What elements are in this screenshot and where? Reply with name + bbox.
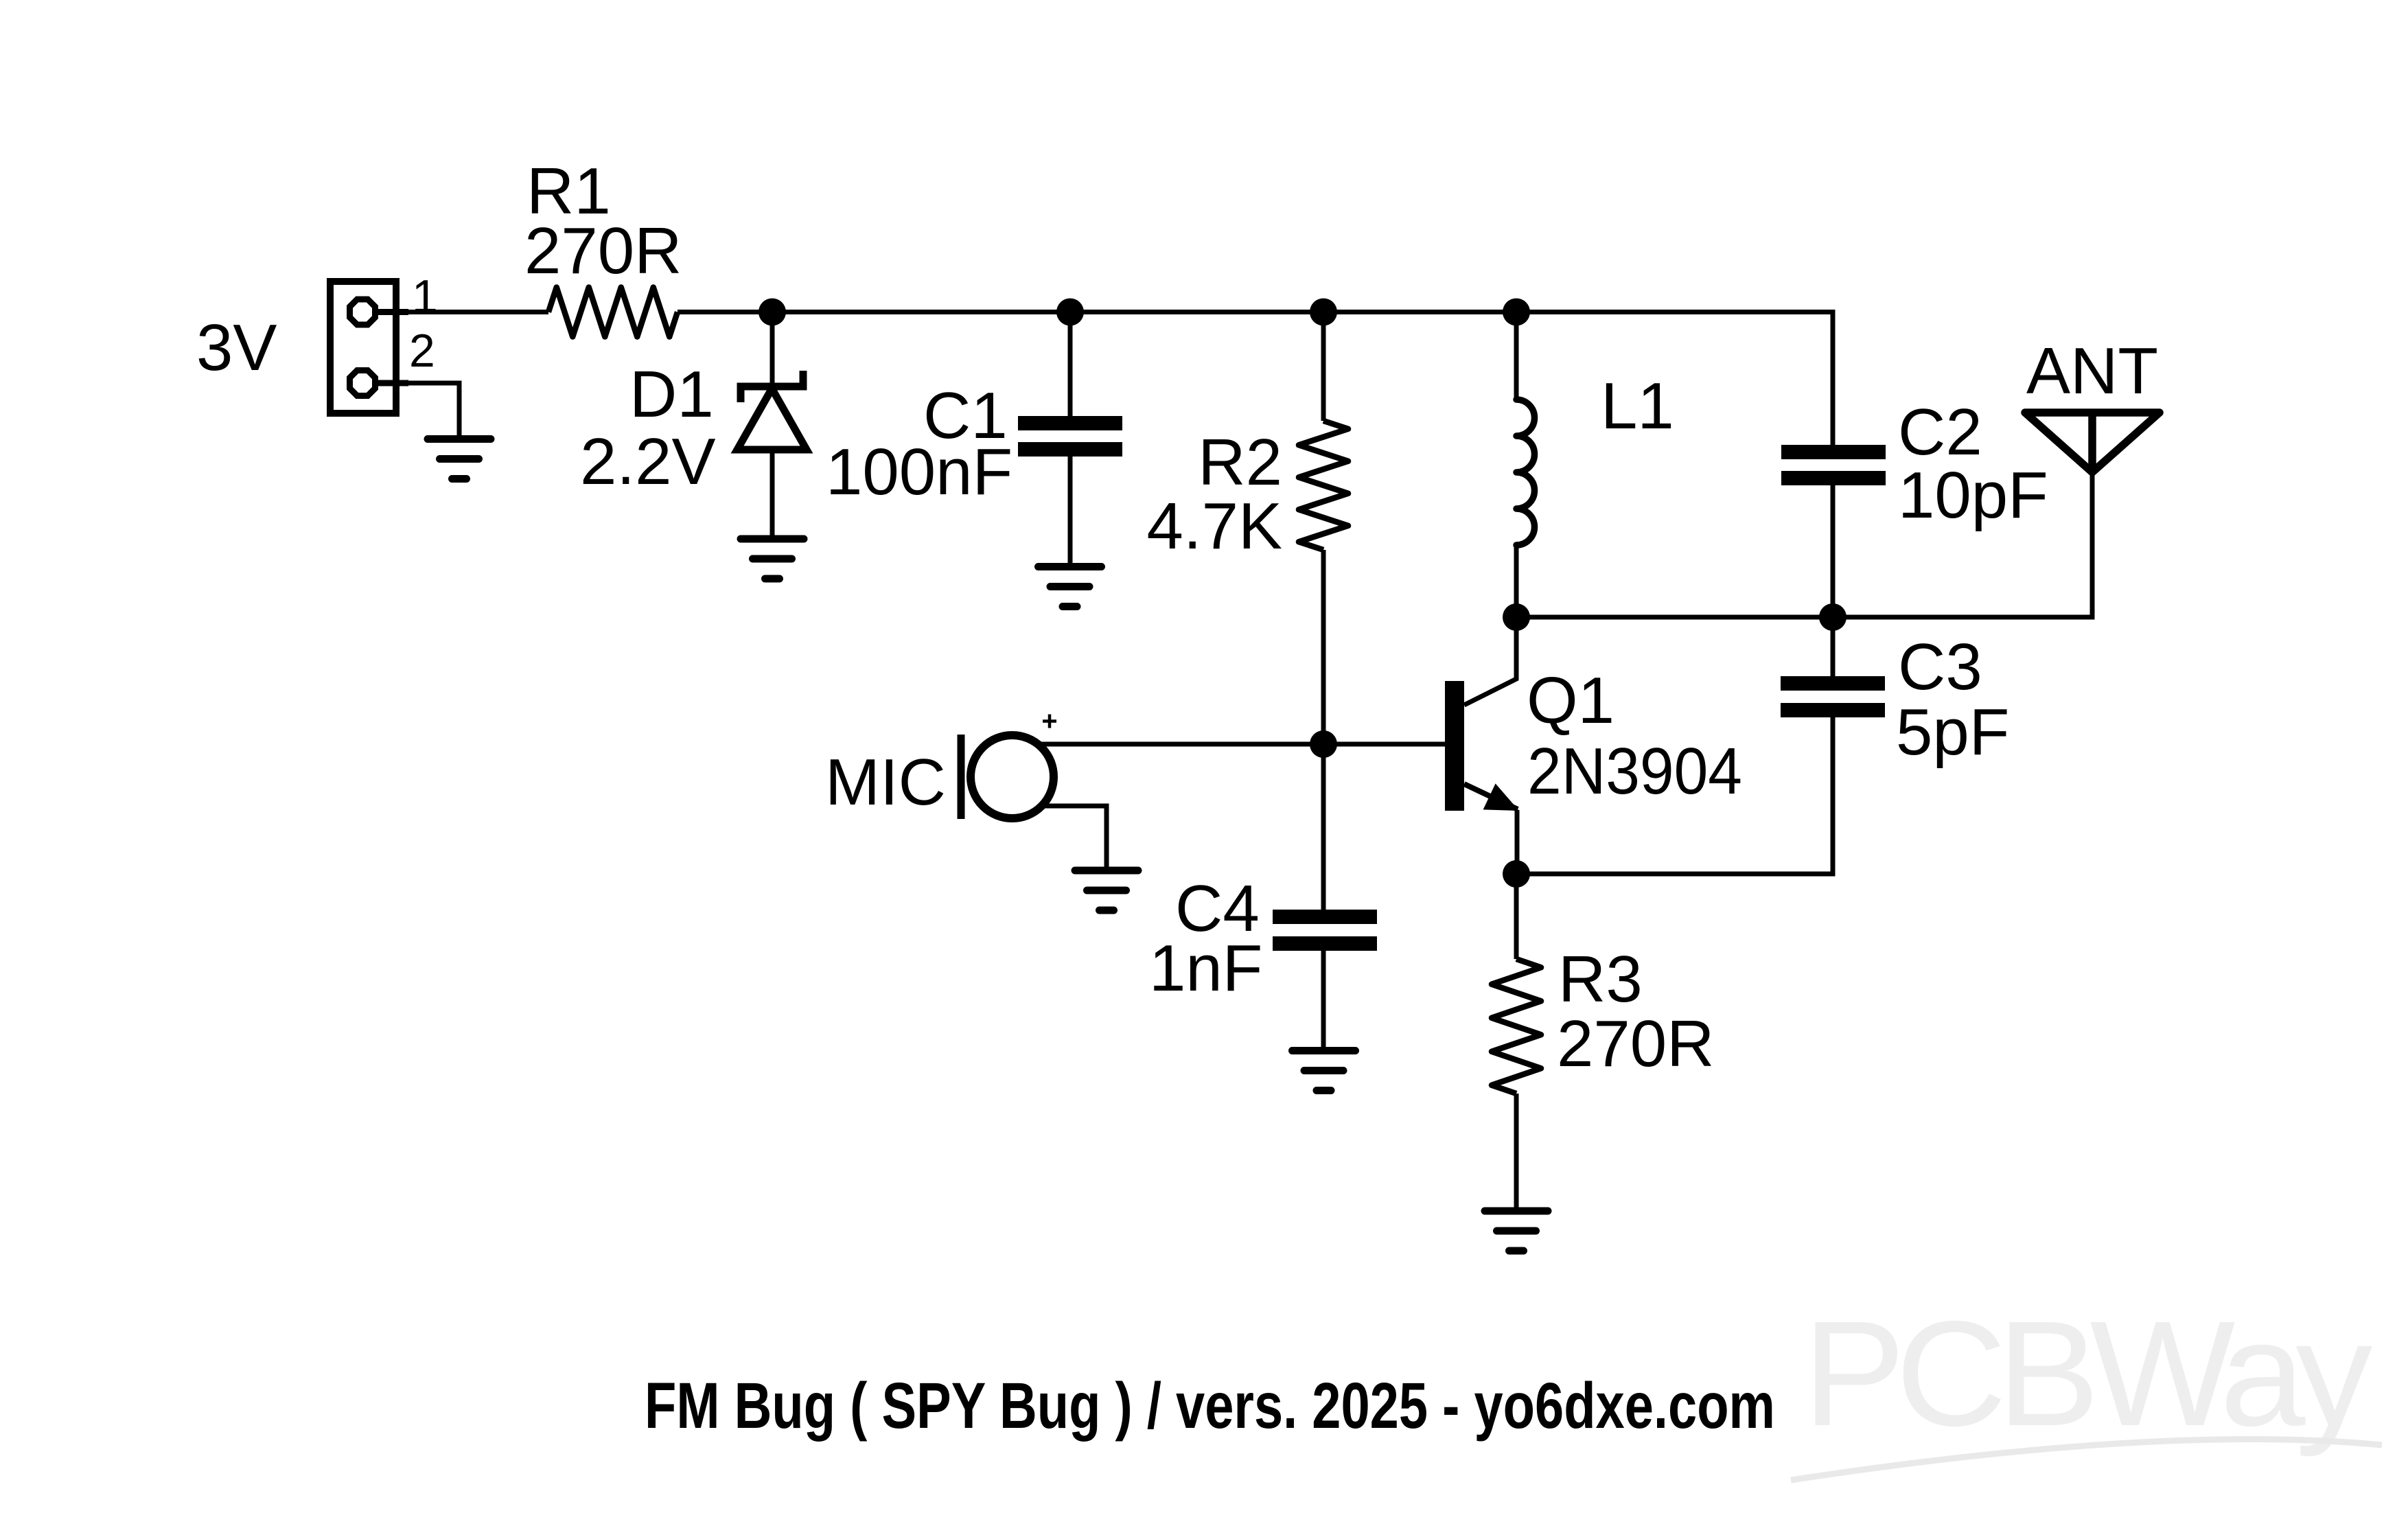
svg-text:FM Bug ( SPY Bug ) / vers. 202: FM Bug ( SPY Bug ) / vers. 2025 - yo6dxe… <box>645 1370 1775 1442</box>
svg-text:C2: C2 <box>1898 395 1982 469</box>
svg-text:1nF: 1nF <box>1149 932 1262 1005</box>
svg-text:100nF: 100nF <box>826 435 1012 509</box>
svg-text:270R: 270R <box>524 214 682 288</box>
svg-text:ANT: ANT <box>2026 334 2158 408</box>
svg-text:1: 1 <box>412 270 438 323</box>
svg-text:3V: 3V <box>196 311 277 384</box>
svg-text:D1: D1 <box>629 358 714 431</box>
svg-text:L1: L1 <box>1601 369 1674 443</box>
svg-text:5pF: 5pF <box>1896 695 2009 769</box>
svg-text:4.7K: 4.7K <box>1147 489 1282 563</box>
svg-text:Q1: Q1 <box>1527 664 1614 737</box>
svg-text:MIC: MIC <box>825 746 946 819</box>
svg-text:2: 2 <box>409 325 435 377</box>
svg-text:270R: 270R <box>1557 1007 1715 1081</box>
svg-text:PCBWay: PCBWay <box>1803 1291 2372 1457</box>
svg-text:2N3904: 2N3904 <box>1527 735 1742 808</box>
svg-text:R2: R2 <box>1198 426 1282 499</box>
svg-text:R3: R3 <box>1558 943 1643 1016</box>
svg-text:10pF: 10pF <box>1898 459 2048 532</box>
svg-text:C3: C3 <box>1898 630 1982 704</box>
svg-text:2.2V: 2.2V <box>580 425 715 498</box>
